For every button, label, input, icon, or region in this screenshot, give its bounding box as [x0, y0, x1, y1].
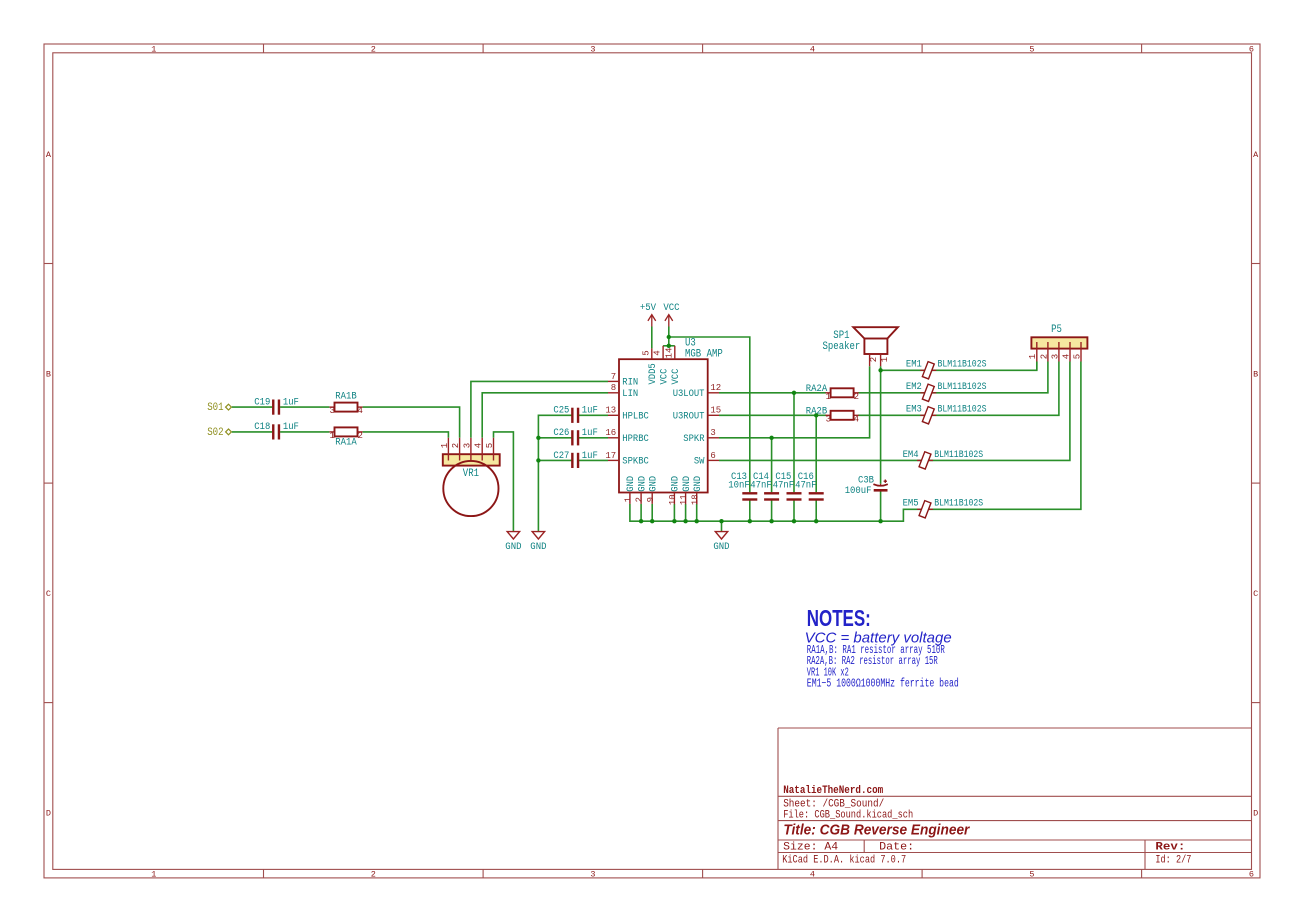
svg-text:D: D [1253, 808, 1258, 818]
ferrite bead EM1 [920, 369, 936, 371]
svg-text:13: 13 [605, 406, 616, 416]
ground symbol bottom [715, 532, 727, 539]
wire U3 gnd pin 1 [651, 504, 653, 521]
capacitor C13 [742, 492, 757, 494]
svg-text:1: 1 [151, 44, 156, 54]
svg-text:GND: GND [530, 541, 546, 553]
svg-text:14: 14 [664, 348, 674, 359]
svg-text:File: CGB_Sound.kicad_sch: File: CGB_Sound.kicad_sch [783, 809, 913, 821]
svg-text:EM3: EM3 [906, 404, 922, 416]
svg-text:1: 1 [329, 431, 334, 441]
wire C3B to gnd bus [880, 491, 882, 521]
svg-text:A: A [1253, 150, 1259, 160]
svg-text:15: 15 [710, 406, 721, 416]
svg-text:4: 4 [653, 350, 663, 355]
title block [778, 727, 1252, 729]
svg-text:B: B [46, 369, 51, 379]
capacitor C27 [571, 453, 573, 468]
svg-text:+5V: +5V [640, 302, 657, 314]
svg-text:BLM11B102S: BLM11B102S [938, 381, 987, 393]
svg-text:GND: GND [505, 541, 521, 553]
capacitor C18 [272, 424, 274, 439]
svg-text:BLM11B102S: BLM11B102S [934, 449, 983, 461]
svg-text:2: 2 [451, 443, 461, 448]
resistor RA1B [329, 406, 334, 408]
resistor RA2B [826, 414, 831, 416]
svg-text:HPLBC: HPLBC [622, 411, 649, 423]
svg-text:LIN: LIN [622, 388, 638, 400]
capacitor C26 [571, 430, 573, 445]
svg-text:HPRBC: HPRBC [622, 433, 649, 445]
wire VR1 pin5 to gnd [494, 432, 514, 531]
svg-text:4: 4 [810, 870, 815, 880]
wire gnd stem below bus [721, 521, 723, 531]
wire C26 to HPRBC [579, 437, 608, 439]
svg-text:SPKBC: SPKBC [622, 456, 649, 468]
svg-text:RA1B: RA1B [335, 391, 356, 403]
svg-text:100uF: 100uF [845, 485, 872, 497]
hierarchical label S02 [226, 429, 232, 435]
wire C27 to SPKBC [579, 459, 608, 461]
svg-text:3: 3 [1050, 354, 1060, 359]
wire P5 pin1 drop [1036, 362, 1038, 371]
svg-text:C26: C26 [553, 427, 569, 439]
wire C19 to RA1B [280, 406, 329, 408]
svg-text:D: D [46, 808, 51, 818]
svg-text:RA2B: RA2B [806, 405, 827, 417]
wire C15 tap [793, 393, 795, 492]
svg-text:6: 6 [710, 451, 715, 461]
ground symbol left [507, 532, 519, 539]
svg-text:18: 18 [690, 494, 700, 505]
svg-text:EM5: EM5 [903, 498, 919, 510]
svg-text:7: 7 [611, 372, 616, 382]
resistor RA1A [329, 431, 334, 433]
svg-text:12: 12 [710, 383, 721, 393]
svg-text:10: 10 [668, 494, 678, 505]
svg-text:5: 5 [1072, 354, 1082, 359]
svg-text:Speaker: Speaker [823, 341, 861, 353]
svg-text:2: 2 [371, 870, 376, 880]
wire VCC pins bridge [663, 345, 675, 347]
capacitor C15 [787, 492, 802, 494]
ferrite bead EM4 [917, 459, 933, 461]
power symbol +5V [648, 315, 656, 321]
svg-text:16: 16 [605, 428, 616, 438]
svg-text:EM1: EM1 [906, 359, 922, 371]
svg-text:1: 1 [440, 443, 450, 448]
svg-text:3: 3 [462, 443, 472, 448]
wire U3 gnd pin 2 [673, 504, 675, 521]
svg-text:VCC: VCC [658, 369, 670, 385]
wire C14 to bus [771, 501, 773, 522]
svg-text:GND: GND [670, 476, 682, 492]
svg-text:U3LOUT: U3LOUT [673, 388, 705, 400]
connector P5 [1031, 337, 1087, 348]
wire S01 to C19 [232, 406, 272, 408]
op-amp U3 MGB AMP [619, 359, 708, 492]
svg-text:BLM11B102S: BLM11B102S [938, 404, 987, 416]
wire VCC power drop [668, 327, 670, 346]
svg-text:SPKR: SPKR [683, 433, 704, 445]
svg-text:4: 4 [810, 44, 815, 54]
svg-text:1uF: 1uF [283, 421, 299, 433]
wire U3 gnd pin 3 [685, 504, 687, 521]
wire C15 to bus [793, 501, 795, 522]
svg-text:GND: GND [648, 476, 660, 492]
svg-text:SW: SW [694, 456, 705, 468]
svg-text:VDD5: VDD5 [647, 363, 659, 384]
svg-text:2: 2 [635, 497, 645, 502]
svg-text:9: 9 [646, 497, 656, 502]
wire junctions [667, 335, 671, 339]
svg-text:C27: C27 [553, 450, 569, 462]
svg-text:3: 3 [710, 428, 715, 438]
svg-text:NOTES:: NOTES: [807, 605, 871, 631]
svg-text:C: C [46, 589, 51, 599]
capacitor C19 [272, 400, 274, 415]
wire RA2A to P5 pin2 via EM2 [858, 362, 1048, 393]
wire U3LOUT to RA2A [719, 392, 826, 394]
ground symbol mid [532, 532, 544, 539]
svg-text:1uF: 1uF [582, 450, 598, 462]
resistor RA2A [826, 392, 831, 394]
svg-text:VCC: VCC [670, 369, 682, 385]
wire cap gnd bus [538, 415, 571, 531]
svg-text:S02: S02 [207, 427, 223, 439]
ferrite bead EM2 [920, 392, 936, 394]
svg-text:47nF: 47nF [750, 480, 771, 492]
svg-text:B: B [1253, 369, 1258, 379]
capacitor C3B [880, 484, 882, 486]
svg-text:1: 1 [880, 357, 890, 362]
svg-text:EM2: EM2 [906, 381, 922, 393]
svg-text:RA1A: RA1A [335, 436, 357, 448]
svg-text:VCC: VCC [663, 302, 679, 314]
hierarchical label S01 [226, 404, 232, 410]
svg-text:8: 8 [611, 383, 616, 393]
svg-text:1uF: 1uF [283, 396, 299, 408]
svg-text:A: A [46, 150, 52, 160]
svg-text:Id: 2/7: Id: 2/7 [1155, 854, 1191, 866]
capacitor C14 [764, 492, 779, 494]
svg-text:5: 5 [641, 350, 651, 355]
svg-text:3: 3 [590, 870, 595, 880]
svg-text:10nF: 10nF [728, 480, 749, 492]
capacitor C16 [809, 492, 824, 494]
svg-text:S01: S01 [207, 402, 223, 414]
wire U3ROUT to RA2B [719, 414, 826, 416]
svg-text:EM4: EM4 [903, 449, 919, 461]
wire C13 to bus [749, 501, 751, 522]
svg-text:P5: P5 [1051, 324, 1062, 336]
ferrite bead EM3 [920, 414, 936, 416]
wire RA2B to P5 pin3 via EM3 [858, 362, 1059, 416]
svg-text:Title: CGB Reverse Engineer: Title: CGB Reverse Engineer [783, 822, 970, 838]
svg-text:2: 2 [869, 357, 879, 362]
svg-text:NatalieTheNerd.com: NatalieTheNerd.com [783, 785, 883, 797]
svg-text:4: 4 [474, 443, 484, 448]
svg-text:2: 2 [1039, 354, 1049, 359]
svg-text:5: 5 [485, 443, 495, 448]
svg-text:1: 1 [151, 870, 156, 880]
capacitor C25 [571, 408, 573, 423]
wire C16 tap [815, 415, 817, 492]
svg-text:BLM11B102S: BLM11B102S [938, 359, 987, 371]
svg-text:KiCad E.D.A. kicad 7.0.7: KiCad E.D.A. kicad 7.0.7 [782, 854, 906, 866]
svg-text:47nF: 47nF [795, 480, 816, 492]
wire RA1A to VR1 pin1 [363, 432, 449, 438]
svg-text:2: 2 [357, 431, 362, 441]
svg-text:4: 4 [357, 406, 362, 416]
wire U3 gnd pin 4 [696, 504, 698, 521]
wire VR1 pin4 to LIN [482, 393, 608, 438]
svg-text:47nF: 47nF [773, 480, 794, 492]
svg-text:3: 3 [590, 44, 595, 54]
svg-text:4: 4 [1061, 354, 1071, 359]
svg-text:17: 17 [605, 451, 616, 461]
svg-text:C25: C25 [553, 405, 569, 417]
svg-text:RA2A: RA2A [806, 383, 828, 395]
svg-text:C19: C19 [254, 396, 270, 408]
wire +5V drop [651, 327, 653, 349]
svg-text:1uF: 1uF [582, 427, 598, 439]
svg-text:2: 2 [854, 392, 859, 402]
wire C25 to HPLBC [579, 414, 608, 416]
wire C18 to RA1A [280, 431, 329, 433]
svg-text:6: 6 [1249, 870, 1254, 880]
potentiometer VR1 [443, 454, 500, 465]
svg-text:Date:: Date: [879, 841, 914, 853]
power symbol VCC [665, 315, 673, 321]
svg-text:6: 6 [1249, 44, 1254, 54]
wire C16 to bus [815, 501, 817, 522]
wire C27 left [538, 459, 571, 461]
svg-text:5: 5 [1029, 870, 1034, 880]
svg-text:4: 4 [854, 414, 859, 424]
svg-text:C18: C18 [254, 421, 270, 433]
svg-text:U3ROUT: U3ROUT [673, 411, 705, 423]
svg-text:C: C [1253, 589, 1258, 599]
svg-text:11: 11 [679, 494, 689, 505]
svg-text:1uF: 1uF [582, 405, 598, 417]
wire SPKR to speaker pin2 [719, 366, 870, 438]
svg-text:BLM11B102S: BLM11B102S [934, 498, 983, 510]
wire EM1 line [881, 362, 1037, 371]
wire VCC to C13 [669, 337, 750, 492]
svg-text:RIN: RIN [622, 377, 638, 389]
speaker SP1 [864, 339, 887, 355]
wire RA1B to VR1 pin2 [363, 407, 460, 438]
wire C26 left [538, 437, 571, 439]
svg-text:Size: A4: Size: A4 [783, 841, 838, 853]
wire speaker pin1 to C3B [880, 366, 882, 484]
wire ground bus [630, 362, 1081, 522]
svg-text:U3: U3 [685, 337, 696, 349]
wire VR1 pin3 to RIN [471, 381, 608, 437]
wire C14 tap [771, 438, 773, 492]
svg-text:GND: GND [625, 476, 637, 492]
svg-text:Rev:: Rev: [1155, 841, 1185, 853]
svg-text:MGB AMP: MGB AMP [685, 349, 723, 361]
svg-text:5: 5 [1029, 44, 1034, 54]
wire S02 to C18 [232, 431, 272, 433]
wire SW to P5 pin4 via EM4 [719, 362, 1070, 461]
svg-text:3: 3 [329, 406, 334, 416]
wire U3 gnd pin 0 [640, 504, 642, 521]
svg-text:2: 2 [371, 44, 376, 54]
svg-text:GND: GND [692, 476, 704, 492]
svg-text:EM1−5 1000Ω1000MHz ferrite bea: EM1−5 1000Ω1000MHz ferrite bead [807, 678, 959, 691]
svg-text:1: 1 [1028, 354, 1038, 359]
ferrite bead EM5 [917, 508, 933, 510]
svg-text:1: 1 [624, 497, 634, 502]
svg-text:VR1: VR1 [463, 468, 479, 480]
svg-text:GND: GND [713, 541, 729, 553]
